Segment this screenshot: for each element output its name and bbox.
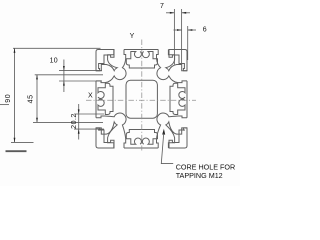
dimension 7 extension line left <box>173 9 175 65</box>
svg-text:TAPPING M12: TAPPING M12 <box>176 171 223 180</box>
leader line <box>161 134 173 164</box>
dimension 7 line <box>166 12 174 14</box>
screw-channel cavity right face <box>170 83 185 114</box>
corner block top-right <box>169 50 187 71</box>
dimension 7 extension line right <box>181 9 183 65</box>
T-slot void with core hole, bottom-left quadrant <box>96 122 117 148</box>
svg-text:90: 90 <box>5 94 12 103</box>
dimension 6 line <box>174 29 182 31</box>
T-slot void with core hole, top-right quadrant <box>166 50 187 71</box>
dimension 45 extension line top <box>35 74 103 76</box>
border remnant mark bottom-left <box>6 150 27 152</box>
dimension 20.2 line <box>78 104 80 140</box>
svg-text:6: 6 <box>203 26 207 33</box>
T-slot void with core hole, top-left quadrant <box>96 50 117 71</box>
T-slot void with core hole, bottom-right quadrant <box>166 122 187 148</box>
leader arrow to core hole <box>162 129 165 135</box>
screw-channel cavity top face <box>126 52 157 69</box>
dimension 10 extension line lower <box>59 80 102 82</box>
centreline X axis <box>86 99 196 101</box>
dimension 10 line <box>63 60 65 93</box>
centreline Y axis <box>141 40 143 151</box>
screw-channel cavity left face <box>98 83 113 114</box>
dimension 45 line <box>36 75 38 123</box>
svg-text:10: 10 <box>50 58 58 65</box>
svg-text:45: 45 <box>28 94 35 103</box>
dimension 90 extension line top <box>13 47 101 49</box>
svg-text:7: 7 <box>160 3 164 10</box>
dimension 6 extension line right <box>187 26 189 60</box>
dimension 45 extension line bottom <box>33 121 103 123</box>
svg-text:X: X <box>88 92 93 99</box>
dimension 20.2 extension line upper <box>74 113 104 115</box>
corner block top-left <box>96 50 114 71</box>
dimension 90 extension line bottom <box>11 141 34 143</box>
corner block bottom-right <box>169 128 187 148</box>
border remnant mark left <box>0 104 9 106</box>
corner block bottom-left <box>96 128 114 148</box>
dimension 10 extension line upper <box>59 70 102 72</box>
profile outline: face segments between slot openings <box>124 49 158 51</box>
dimension 20.2 extension line lower <box>74 128 104 130</box>
svg-text:20.2: 20.2 <box>71 113 78 129</box>
svg-text:Y: Y <box>130 33 135 40</box>
central cavity <box>126 80 157 118</box>
screw-channel cavity bottom face <box>126 130 157 145</box>
dimension 90 line <box>14 48 16 142</box>
